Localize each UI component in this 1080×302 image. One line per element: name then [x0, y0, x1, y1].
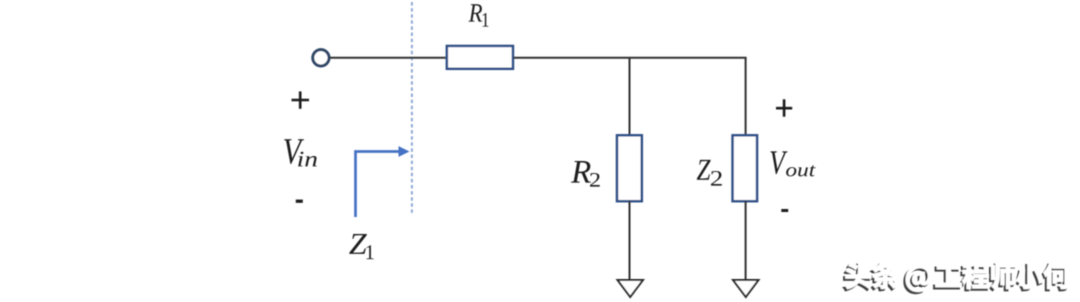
wire: R1 to output branch — [514, 57, 747, 59]
label R1 — [468, 4, 482, 21]
label Z2 — [697, 160, 711, 180]
wire: R2 to ground — [629, 201, 631, 280]
label Vin — [284, 139, 304, 164]
label + (input polarity) — [292, 91, 310, 108]
input terminal circle — [313, 50, 329, 66]
label - (input polarity) — [296, 200, 303, 203]
watermark shadow 头条@工程师小何 — [844, 264, 1069, 293]
label Vout — [770, 151, 787, 174]
wire: terminal to R1 — [330, 57, 447, 59]
label Z1 — [349, 234, 367, 254]
ground (Z2 branch) — [733, 280, 759, 297]
label - (output polarity) — [781, 209, 788, 212]
wire: Z2 to ground — [745, 201, 747, 280]
wire: junction down to R2 — [629, 58, 631, 135]
impedance arrow Z1 — [356, 152, 401, 218]
watermark white text 头条@工程师小何 — [846, 262, 1071, 291]
label R2 — [571, 161, 591, 183]
wire: branch down to Z2 — [745, 58, 747, 135]
impedance element Z2 — [733, 135, 758, 201]
resistor R2 — [617, 135, 642, 201]
ground (R2 branch) — [618, 280, 644, 297]
measurement plane dashed line (Z1 reference plane) — [411, 2, 413, 215]
label + (output polarity) — [776, 99, 792, 116]
resistor R1 — [447, 46, 513, 69]
